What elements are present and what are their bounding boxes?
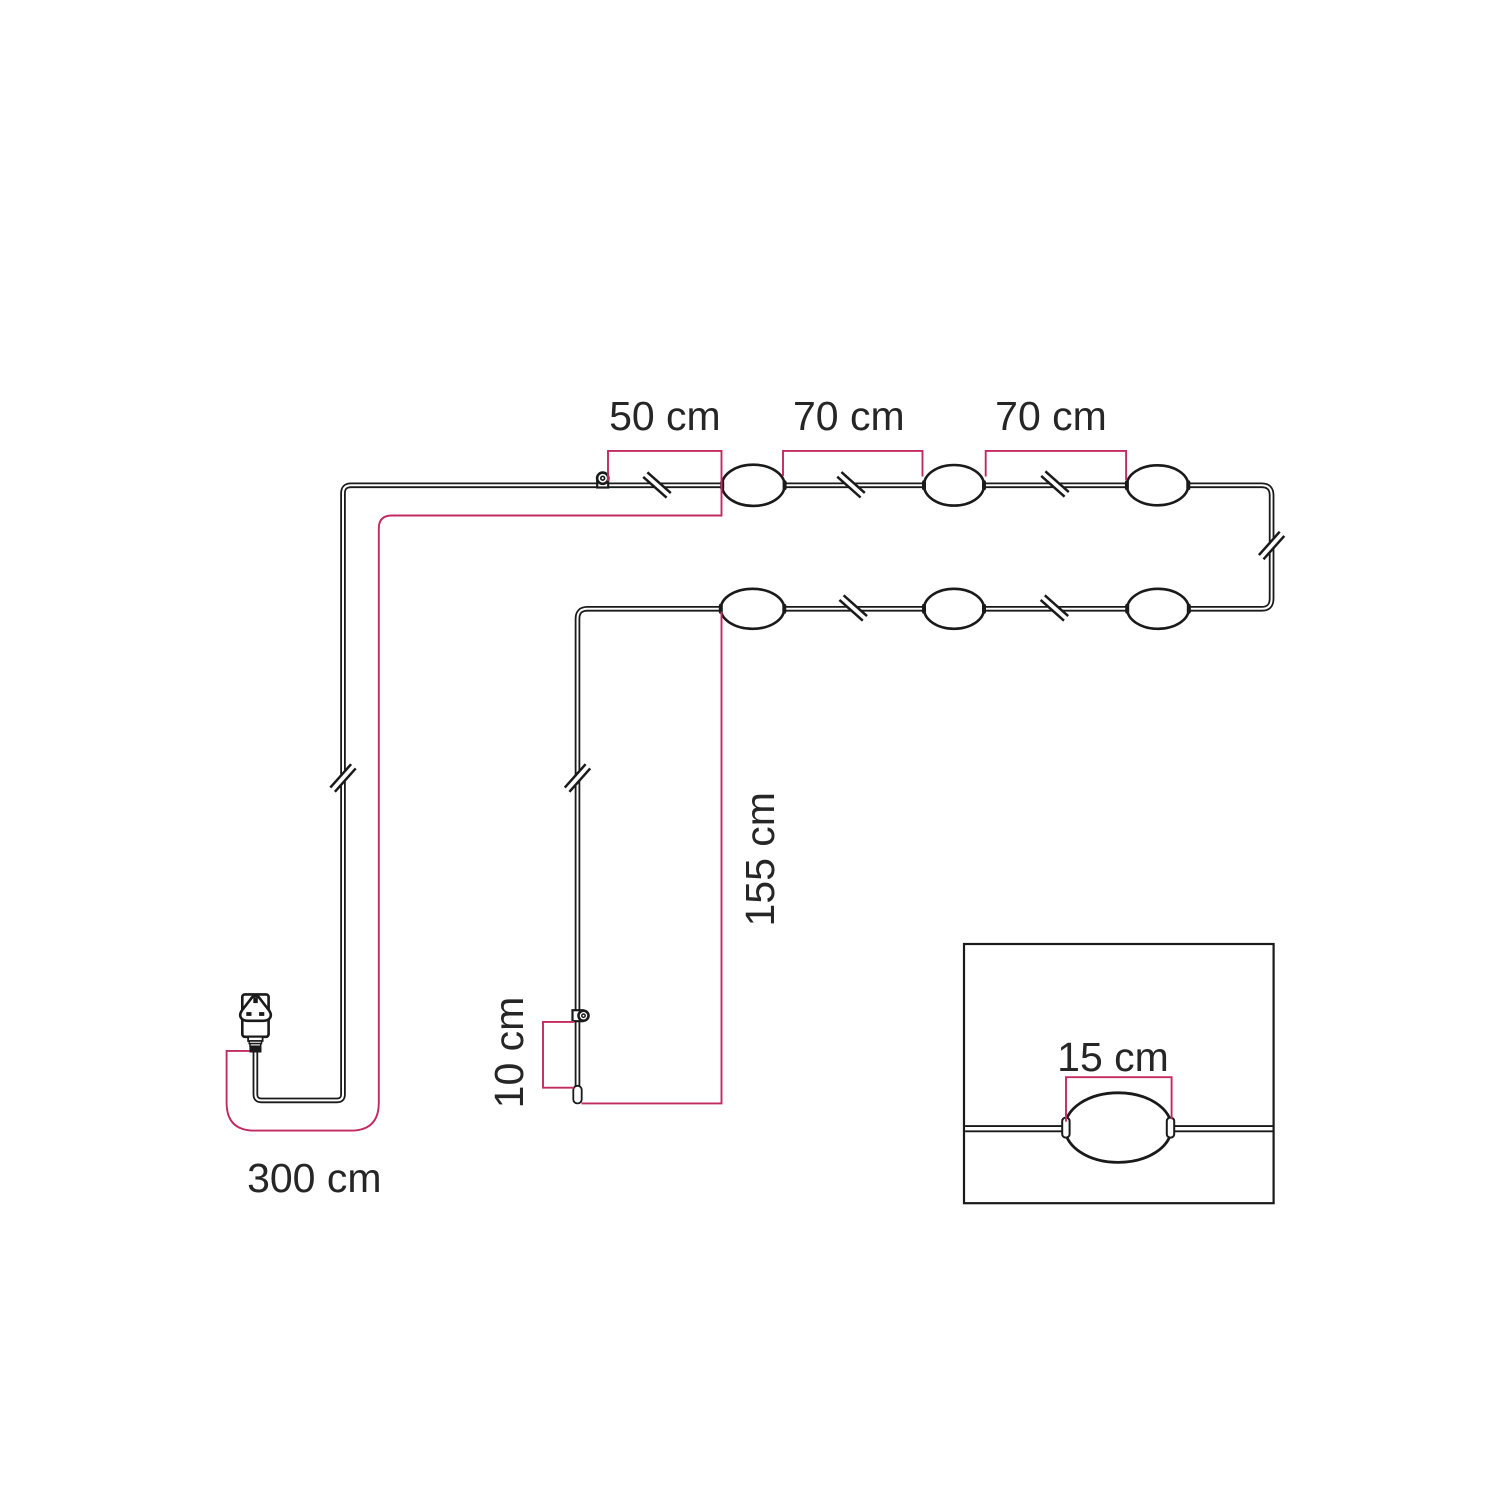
lamp L5 (second row middle): [922, 589, 986, 629]
dimension bracket: 15 cm (detail): [1066, 1077, 1172, 1121]
lamp L2 (top row): [922, 465, 986, 506]
svg-text:300 cm: 300 cm: [247, 1155, 381, 1201]
svg-text:10 cm: 10 cm: [486, 997, 532, 1109]
break symbol (left long vertical from plug): [330, 764, 355, 792]
dimension bracket: 70 cm (first span): [783, 451, 923, 477]
lamp L1 (top row): [720, 465, 786, 506]
dimension bracket: 10 cm (bottom end): [543, 1022, 574, 1088]
svg-text:50 cm: 50 cm: [609, 393, 721, 439]
detail lamp: [1065, 1093, 1172, 1163]
lamp L3 (top row): [1125, 465, 1190, 505]
cable end tip (bottom of middle drop): [573, 1086, 581, 1104]
break symbol (top row, between lamps L2 and L3): [1041, 471, 1069, 496]
svg-text:15 cm: 15 cm: [1057, 1034, 1169, 1080]
plug (UK plug, bottom left): [240, 994, 271, 1052]
svg-text:70 cm: 70 cm: [793, 393, 905, 439]
svg-text:70 cm: 70 cm: [995, 393, 1107, 439]
break symbol (right vertical drop): [1259, 532, 1284, 560]
hanging eyelet hook (middle vertical, near bottom end): [573, 1010, 589, 1021]
dimension path: 50 cm bracket + 300 cm lead (magenta): [227, 451, 722, 1131]
lamp L4 (second row left): [719, 589, 787, 629]
wire: main cable run (plug lead, top row, right drop, second row, middle drop): [255, 485, 1271, 1100]
break symbol (middle vertical drop): [565, 764, 590, 792]
detail box (bottom right): [964, 944, 1274, 1203]
dimension path: 155 cm (middle drop): [582, 612, 722, 1104]
break symbol (second row, between lamps L5 and L6): [1041, 595, 1069, 620]
dimension bracket: 70 cm (second span): [986, 451, 1126, 480]
lamp L6 (second row right): [1125, 589, 1191, 629]
hanging eyelet hook (top row, near start): [597, 473, 608, 488]
break symbol (top row, between lamps L1 and L2): [837, 472, 865, 497]
svg-text:155 cm: 155 cm: [737, 792, 783, 926]
break symbol (second row, between lamps L4 and L5): [839, 595, 867, 620]
break symbol (top row, between hook and lamp L1): [643, 472, 671, 497]
